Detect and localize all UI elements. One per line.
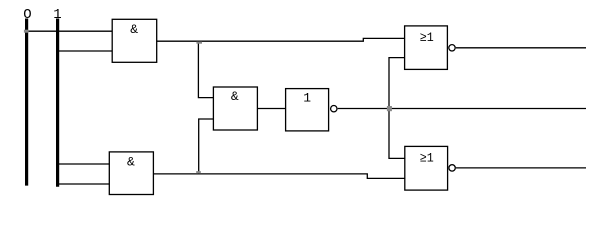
svg-text:≥1: ≥1 — [420, 150, 434, 165]
svg-text:&: & — [130, 22, 138, 37]
svg-text:≥1: ≥1 — [420, 30, 434, 45]
svg-text:&: & — [231, 89, 239, 104]
svg-text:1: 1 — [303, 90, 311, 105]
svg-text:1: 1 — [53, 7, 61, 23]
svg-text:O: O — [23, 7, 31, 23]
svg-text:&: & — [127, 154, 135, 169]
